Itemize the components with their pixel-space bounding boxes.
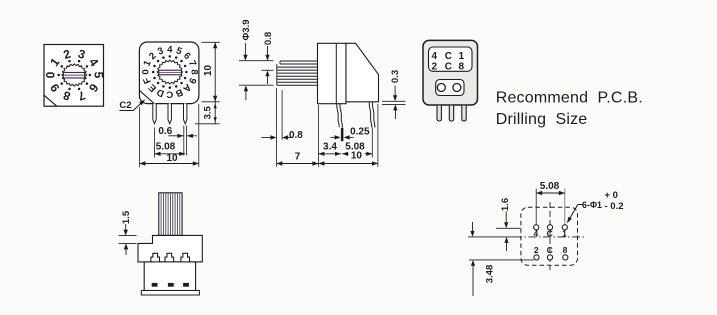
svg-text:3.5: 3.5 — [203, 105, 214, 119]
dial mark 9 — [60, 82, 63, 85]
dimension 3.48 — [472, 222, 474, 231]
dial mark 9 — [184, 77, 187, 80]
dial mark 7 — [184, 65, 187, 68]
svg-text:1: 1 — [459, 51, 465, 62]
dial mark C — [169, 86, 172, 89]
pin at x=439.2 (back view) — [437, 105, 441, 121]
svg-text:8: 8 — [563, 245, 568, 255]
side view body with chamfered corner — [346, 43, 379, 102]
hole 4 (top row) — [534, 225, 539, 230]
dial mark E — [157, 82, 160, 85]
dial mark 7 — [78, 88, 81, 91]
rotor slot — [159, 70, 182, 75]
dimension lines for dia 3.9 and 0.8 — [239, 60, 274, 62]
extension ticks right of hex switch — [202, 41, 220, 43]
dial mark B — [175, 85, 178, 88]
pin extension lines — [183, 126, 185, 156]
pin at x=464.0 (back view) — [462, 105, 466, 121]
svg-text:5.08: 5.08 — [156, 141, 176, 152]
dial mark 2 — [157, 60, 160, 63]
svg-text:10: 10 — [166, 153, 178, 164]
dial mark F — [153, 77, 156, 80]
svg-text:7: 7 — [295, 152, 301, 163]
svg-text:0.3: 0.3 — [390, 70, 401, 83]
dimension 10 (body width) — [138, 107, 140, 167]
extension line from centerline — [468, 236, 514, 238]
svg-text:6-Φ1: 6-Φ1 — [582, 200, 602, 210]
svg-text:4: 4 — [432, 51, 438, 62]
body with notch (bottom-left view) — [138, 235, 202, 262]
svg-text:0: 0 — [140, 69, 151, 74]
svg-text:+ 0: + 0 — [605, 190, 618, 201]
pin at x=451.5 (back view) — [449, 105, 453, 121]
svg-text:C: C — [166, 89, 173, 100]
dimension 1.6 — [496, 227, 521, 229]
dial mark 8 — [185, 71, 188, 74]
hole C (top row) — [547, 225, 552, 230]
dial mark 0 — [57, 74, 60, 77]
dimension 1.5 — [119, 235, 137, 237]
dimension 0.8 (horizontal) — [262, 137, 271, 139]
svg-text:C: C — [547, 229, 553, 239]
dial mark 8 — [68, 88, 71, 91]
extension lines below side view — [275, 88, 277, 167]
svg-text:- 0.2: - 0.2 — [605, 201, 624, 212]
switch front view body (hex) — [139, 42, 199, 104]
svg-text:Φ3.9: Φ3.9 — [241, 19, 252, 40]
svg-text:0.25: 0.25 — [350, 126, 370, 137]
svg-text:C2: C2 — [119, 100, 131, 111]
pcb bottom plate — [141, 291, 199, 296]
rotor knurled wheel — [157, 60, 183, 84]
svg-text:Recommend P.C.B.: Recommend P.C.B. — [496, 90, 643, 107]
thumbwheel edge (stack of lines) — [280, 60, 318, 62]
svg-text:1: 1 — [562, 229, 567, 239]
back view label plate — [429, 47, 473, 71]
dimension 10 (side) — [349, 151, 365, 160]
dimension 10 (body height) — [214, 42, 216, 102]
dial mark 3 — [78, 60, 81, 63]
svg-text:5: 5 — [91, 72, 105, 79]
hole 1 (top row) — [562, 225, 567, 230]
svg-text:3.48: 3.48 — [484, 265, 495, 284]
svg-text:5.08: 5.08 — [540, 181, 560, 192]
back view window with two circles — [436, 80, 464, 96]
dimension 3.5 (pin length) — [214, 102, 216, 124]
dial mark 1 — [60, 65, 63, 68]
pin at x=185.2 (front view) — [184, 104, 187, 124]
horizontal centerline (dash-dot) — [514, 236, 586, 238]
svg-text:8: 8 — [188, 69, 199, 75]
svg-text:C: C — [445, 61, 452, 72]
dial mark 3 — [162, 56, 165, 59]
middle pin cross-section (bold) — [341, 128, 344, 142]
dial mark A — [180, 82, 183, 85]
svg-text:10: 10 — [351, 151, 363, 162]
dial mark D — [162, 85, 165, 88]
svg-text:0.8: 0.8 — [289, 130, 303, 141]
dial mark 2 — [68, 60, 71, 63]
rotor knurled wheel — [62, 64, 87, 86]
pin at x=169.7 (front view) — [168, 104, 171, 124]
dial mark 6 — [180, 60, 183, 63]
svg-text:3.4: 3.4 — [323, 141, 337, 152]
dimension 0.3 (stand-off) — [382, 100, 406, 102]
vertical centerline through middle holes — [549, 202, 551, 270]
svg-text:2: 2 — [534, 245, 539, 255]
dial mark 0 — [152, 71, 155, 74]
pcb outline (dashed) — [521, 207, 578, 265]
rotor slot — [63, 72, 84, 78]
dial mark 4 — [86, 65, 89, 68]
chamfer mark corner (decimal) — [44, 95, 57, 106]
svg-text:1.6: 1.6 — [500, 198, 511, 211]
back view body — [423, 40, 478, 105]
chamfer C2 line — [139, 90, 154, 103]
thumbwheel (vertical knurl lines) — [159, 193, 182, 236]
svg-text:C: C — [445, 51, 452, 62]
svg-text:1.5: 1.5 — [121, 210, 132, 224]
svg-text:8: 8 — [459, 61, 465, 72]
dial mark 5 — [89, 74, 92, 77]
svg-text:2: 2 — [432, 61, 438, 72]
pin at x=154.5 (front view) — [153, 104, 156, 124]
dimension 5.08 (hole pitch) — [535, 189, 537, 225]
svg-text:4: 4 — [534, 229, 539, 239]
dial mark 1 — [153, 65, 156, 68]
solder pin section x=154.6 — [152, 283, 158, 287]
svg-text:Drilling Size: Drilling Size — [496, 111, 588, 128]
svg-text:0.6: 0.6 — [158, 126, 172, 137]
dial mark 5 — [175, 56, 178, 59]
switch top view body (decimal) — [44, 45, 104, 107]
dial mark 4 — [169, 55, 172, 58]
solder pin section x=186.0 — [183, 283, 189, 287]
solder pin section x=170.8 — [168, 283, 174, 287]
dial mark 6 — [86, 82, 89, 85]
pcb block — [144, 262, 195, 291]
bent leg (left) — [337, 104, 340, 128]
svg-text:4: 4 — [167, 44, 173, 55]
svg-text:0: 0 — [43, 71, 57, 78]
bent leg (right) — [369, 102, 372, 128]
svg-text:C: C — [547, 245, 553, 255]
side view front plate — [318, 43, 347, 103]
svg-text:10: 10 — [203, 65, 214, 77]
svg-text:0.8: 0.8 — [263, 32, 274, 45]
